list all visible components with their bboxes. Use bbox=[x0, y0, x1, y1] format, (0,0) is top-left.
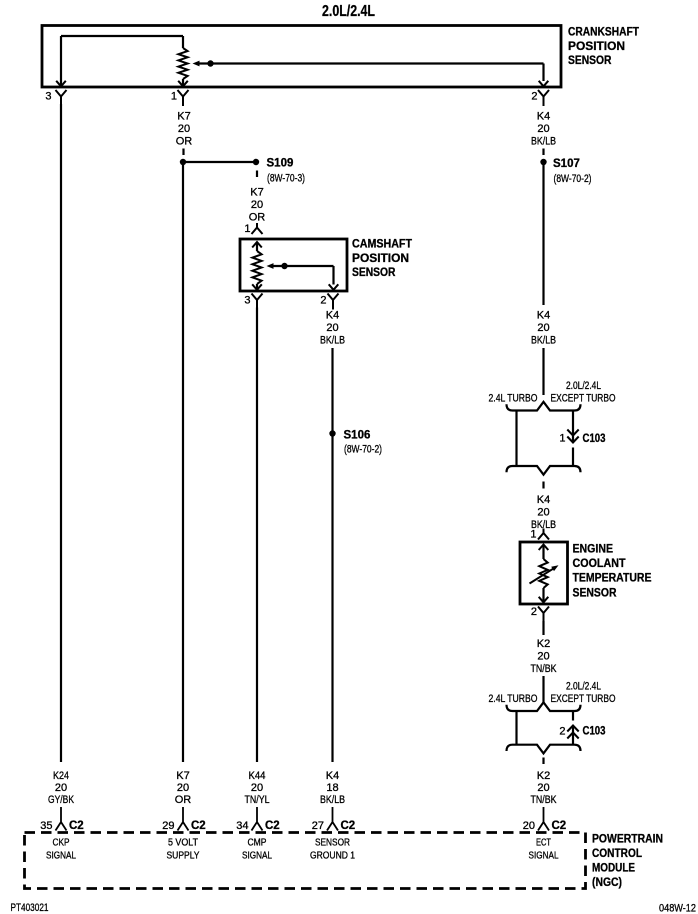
junction dot camshaft pickup bbox=[281, 263, 287, 269]
svg-text:MODULE: MODULE bbox=[592, 861, 635, 875]
pin 2 camshaft connector bbox=[328, 294, 339, 310]
split brace bottom 2 bbox=[507, 745, 581, 754]
svg-text:SIGNAL: SIGNAL bbox=[242, 851, 272, 862]
pin 1 camshaft label bbox=[244, 223, 250, 235]
connector C2 label at pin 35 bbox=[69, 820, 84, 832]
svg-text:BK/LB: BK/LB bbox=[531, 136, 556, 148]
wire S107 down bbox=[542, 162, 544, 305]
svg-text:20: 20 bbox=[326, 322, 338, 334]
wire except turbo upper 2 bbox=[572, 712, 574, 721]
svg-text:20: 20 bbox=[251, 782, 263, 794]
svg-text:CRANKSHAFT: CRANKSHAFT bbox=[568, 25, 640, 39]
pin 20 label bbox=[523, 820, 535, 832]
svg-text:COOLANT: COOLANT bbox=[573, 556, 627, 570]
svg-text:2.4L TURBO: 2.4L TURBO bbox=[489, 693, 538, 705]
label K7 20 OR to camshaft bbox=[249, 187, 266, 224]
svg-text:TN/YL: TN/YL bbox=[245, 794, 270, 806]
svg-text:CMP: CMP bbox=[248, 838, 267, 849]
label K7 20 OR top bbox=[176, 111, 193, 148]
resistor camshaft pickup coil bbox=[252, 251, 261, 284]
label 2.4L TURBO split1 bbox=[489, 393, 538, 405]
svg-text:POWERTRAIN: POWERTRAIN bbox=[592, 832, 663, 846]
svg-text:CONTROL: CONTROL bbox=[592, 846, 642, 860]
wire 5 volt supply column bbox=[182, 162, 184, 762]
svg-text:GROUND 1: GROUND 1 bbox=[310, 851, 355, 862]
wire crank internal left drop bbox=[60, 36, 62, 86]
svg-text:POSITION: POSITION bbox=[352, 251, 409, 265]
svg-text:20: 20 bbox=[523, 820, 535, 832]
crankshaft position sensor box bbox=[42, 26, 561, 88]
svg-text:20: 20 bbox=[537, 507, 549, 519]
wire except turbo lower 2 bbox=[572, 726, 574, 745]
pin 3 camshaft label bbox=[244, 295, 250, 307]
svg-text:2: 2 bbox=[531, 606, 537, 618]
label ECT SIGNAL bbox=[529, 838, 559, 862]
arrow into pin 3 bbox=[56, 81, 66, 87]
wire ECT down bbox=[542, 621, 544, 635]
splice S107 bbox=[540, 158, 580, 170]
label PT403021 bbox=[11, 902, 49, 914]
pin 2 crank connector bbox=[538, 90, 549, 106]
wire resistor to pin 3 camshaft bbox=[256, 284, 258, 289]
svg-text:K4: K4 bbox=[326, 310, 339, 322]
split brace top 2 bbox=[507, 702, 581, 711]
label K4 20 BK/LB crank bbox=[531, 111, 556, 148]
wire branch to S109 bbox=[183, 161, 256, 163]
wire pin1 to resistor bbox=[256, 242, 258, 251]
svg-text:SIGNAL: SIGNAL bbox=[46, 851, 76, 862]
svg-text:SENSOR: SENSOR bbox=[573, 586, 617, 600]
title 2.0L/2.4L bbox=[322, 3, 375, 20]
pin 3 crank connector bbox=[56, 90, 67, 106]
pin 34 label bbox=[236, 820, 248, 832]
arrow into pin 2 ECT bbox=[539, 597, 549, 603]
arrow into pin 3 camshaft bbox=[252, 284, 262, 290]
pin 27 label bbox=[312, 820, 324, 832]
svg-text:BK/LB: BK/LB bbox=[320, 335, 345, 347]
label POWERTRAIN CONTROL MODULE (NGC) bbox=[592, 832, 663, 890]
svg-text:1: 1 bbox=[244, 223, 250, 235]
svg-text:K4: K4 bbox=[537, 310, 550, 322]
wire pin1 ECT to thermistor bbox=[542, 545, 544, 560]
wire crank internal top bbox=[61, 35, 183, 37]
thermistor arrow bbox=[530, 565, 559, 583]
svg-text:K44: K44 bbox=[249, 770, 266, 782]
svg-text:20: 20 bbox=[178, 123, 190, 135]
wire except turbo upper 1 bbox=[572, 411, 574, 443]
arrow into pin 2 bbox=[539, 81, 549, 87]
svg-text:SIGNAL: SIGNAL bbox=[529, 851, 559, 862]
arrow crank pickup bbox=[193, 61, 200, 67]
svg-text:29: 29 bbox=[162, 820, 174, 832]
label 2.0L/2.4L split2 bbox=[566, 681, 601, 693]
svg-text:2: 2 bbox=[559, 726, 565, 738]
wire K44 20 TN/YL bbox=[256, 308, 258, 763]
label K44 20 TN/YL bbox=[245, 770, 270, 806]
wire dash above S107 bbox=[542, 149, 544, 156]
thermistor ECT bbox=[539, 559, 547, 588]
svg-text:ENGINE: ENGINE bbox=[573, 542, 614, 556]
label K24 20 GY/BK bbox=[48, 770, 75, 806]
connector C103 chevrons down bbox=[567, 430, 578, 443]
label CKP SIGNAL bbox=[46, 838, 76, 862]
svg-text:20: 20 bbox=[537, 782, 549, 794]
wire dash above S109 bbox=[182, 149, 184, 156]
svg-text:EXCEPT TURBO: EXCEPT TURBO bbox=[551, 393, 616, 405]
pin 1 C103 label bbox=[559, 433, 565, 445]
label 5 VOLT SUPPLY bbox=[167, 838, 200, 862]
svg-text:POSITION: POSITION bbox=[568, 39, 625, 53]
svg-text:ECT: ECT bbox=[536, 838, 551, 849]
arrow camshaft pickup bbox=[267, 263, 274, 269]
svg-text:2.0L/2.4L: 2.0L/2.4L bbox=[322, 3, 375, 20]
wire thermistor to pin 2 ECT bbox=[542, 588, 544, 602]
svg-text:SENSOR: SENSOR bbox=[352, 265, 396, 279]
splice S109 bbox=[253, 158, 294, 170]
pin 2 ECT connector bbox=[538, 607, 549, 623]
svg-text:1: 1 bbox=[171, 91, 177, 103]
label K4 20 BK/LB mid bbox=[531, 310, 556, 347]
pin 20 PCM connector bbox=[538, 807, 549, 831]
svg-text:18: 18 bbox=[326, 782, 338, 794]
wire except turbo lower 1 bbox=[572, 448, 574, 467]
junction dot at S109 branch bbox=[180, 159, 186, 165]
svg-text:C2: C2 bbox=[341, 820, 356, 832]
svg-text:K7: K7 bbox=[177, 111, 190, 123]
wire dash below split 2 bbox=[542, 758, 544, 765]
wire camshaft ground upper bbox=[331, 348, 333, 762]
wire camshaft pickup shaft bbox=[273, 265, 334, 267]
label C103 first bbox=[583, 433, 606, 445]
svg-text:2.0L/2.4L: 2.0L/2.4L bbox=[566, 681, 601, 693]
svg-text:20: 20 bbox=[177, 782, 189, 794]
svg-text:TN/BK: TN/BK bbox=[531, 663, 558, 675]
svg-text:SENSOR: SENSOR bbox=[568, 53, 612, 67]
wire 2.4L turbo branch 1 bbox=[515, 411, 517, 467]
connector C2 label at pin 29 bbox=[191, 820, 206, 832]
splice S106 bbox=[329, 430, 370, 442]
svg-text:(8W-70-2): (8W-70-2) bbox=[344, 444, 382, 456]
arrow into pin 1 bbox=[178, 81, 188, 87]
svg-text:20: 20 bbox=[537, 322, 549, 334]
label CMP SIGNAL bbox=[242, 838, 272, 862]
svg-text:K7: K7 bbox=[176, 770, 189, 782]
pin 2 ECT label bbox=[531, 606, 537, 618]
svg-text:C103: C103 bbox=[583, 726, 606, 738]
svg-text:CAMSHAFT: CAMSHAFT bbox=[352, 237, 413, 251]
svg-text:S109: S109 bbox=[267, 158, 294, 170]
pin 1 ECT connector bbox=[538, 529, 549, 540]
label (8W-70-2) at S106 bbox=[344, 444, 382, 456]
engine coolant temperature sensor box bbox=[520, 542, 568, 604]
pin 3 camshaft connector bbox=[252, 294, 263, 310]
connector C103 chevrons up bbox=[567, 726, 578, 739]
svg-text:C103: C103 bbox=[583, 433, 606, 445]
junction dot crank pickup bbox=[207, 60, 213, 66]
svg-text:K4: K4 bbox=[537, 494, 550, 506]
svg-text:OR: OR bbox=[175, 794, 192, 806]
svg-text:EXCEPT TURBO: EXCEPT TURBO bbox=[551, 693, 616, 705]
camshaft position sensor box bbox=[240, 239, 347, 291]
svg-text:27: 27 bbox=[312, 820, 324, 832]
svg-text:BK/LB: BK/LB bbox=[531, 335, 556, 347]
label C103 second bbox=[583, 726, 606, 738]
wire 2.4L turbo branch 2 bbox=[515, 711, 517, 745]
label K4 20 BK/LB to ECT bbox=[531, 494, 556, 531]
wire crank pickup drop bbox=[542, 64, 544, 82]
wire crank to resistor bbox=[182, 36, 184, 48]
svg-text:S106: S106 bbox=[344, 430, 371, 442]
svg-text:3: 3 bbox=[244, 295, 250, 307]
wire dash below split 1 bbox=[542, 482, 544, 489]
arrow from pin 1 ECT bbox=[539, 545, 549, 551]
svg-text:SENSOR: SENSOR bbox=[315, 838, 350, 849]
wire dash below S109 bbox=[256, 171, 258, 178]
pin 29 label bbox=[162, 820, 174, 832]
arrow into pin 2 camshaft bbox=[329, 284, 339, 290]
svg-text:20: 20 bbox=[537, 123, 549, 135]
svg-text:TN/BK: TN/BK bbox=[531, 794, 558, 806]
wire to split 1 bbox=[542, 348, 544, 395]
arrow from pin 1 camshaft bbox=[252, 242, 262, 248]
label EXCEPT TURBO split1 bbox=[551, 393, 616, 405]
svg-text:C2: C2 bbox=[265, 820, 280, 832]
pin 2 C103 label bbox=[559, 726, 565, 738]
svg-text:1: 1 bbox=[559, 433, 565, 445]
svg-text:S107: S107 bbox=[553, 158, 580, 170]
pin 3 label bbox=[45, 91, 51, 103]
powertrain control module box bbox=[25, 833, 586, 889]
svg-text:1: 1 bbox=[530, 529, 536, 541]
svg-text:20: 20 bbox=[55, 782, 67, 794]
svg-text:C2: C2 bbox=[191, 820, 206, 832]
svg-text:C2: C2 bbox=[552, 820, 567, 832]
label (8W-70-2) at S107 bbox=[554, 173, 592, 185]
connector C2 label at pin 34 bbox=[265, 820, 280, 832]
wire K24 20 GY/BK bbox=[60, 104, 62, 762]
label 2.4L TURBO split2 bbox=[489, 693, 538, 705]
label K7 20 OR bottom bbox=[175, 770, 192, 806]
svg-text:GY/BK: GY/BK bbox=[48, 794, 75, 806]
svg-text:K4: K4 bbox=[326, 770, 339, 782]
pin 1 crank connector bbox=[178, 90, 189, 106]
pin 35 label bbox=[40, 820, 52, 832]
svg-text:20: 20 bbox=[251, 199, 263, 211]
svg-text:CKP: CKP bbox=[53, 838, 70, 849]
pin 2 camshaft label bbox=[320, 295, 326, 307]
wire resistor to pin 1 bbox=[182, 79, 184, 86]
connector C2 label at pin 20 bbox=[552, 820, 567, 832]
svg-text:2: 2 bbox=[531, 91, 537, 103]
label CAMSHAFT POSITION SENSOR bbox=[352, 237, 413, 280]
svg-text:048W-12: 048W-12 bbox=[659, 903, 696, 914]
label K4 20 BK/LB camshaft bbox=[320, 310, 345, 347]
label EXCEPT TURBO split2 bbox=[551, 693, 616, 705]
svg-text:OR: OR bbox=[249, 212, 266, 224]
wire to split 2 bbox=[542, 676, 544, 703]
label K2 20 TN/BK bottom bbox=[531, 770, 558, 806]
label 048W-12 bbox=[659, 903, 696, 914]
pin 29 PCM connector bbox=[178, 807, 189, 831]
svg-text:5 VOLT: 5 VOLT bbox=[168, 838, 198, 849]
pin 27 PCM connector bbox=[327, 807, 338, 831]
svg-text:TEMPERATURE: TEMPERATURE bbox=[573, 571, 652, 585]
connector C2 label at pin 27 bbox=[341, 820, 356, 832]
wire crank pickup shaft bbox=[199, 62, 544, 64]
svg-text:3: 3 bbox=[45, 91, 51, 103]
svg-text:K7: K7 bbox=[250, 187, 263, 199]
pin 2 label bbox=[531, 91, 537, 103]
svg-text:SUPPLY: SUPPLY bbox=[167, 851, 200, 862]
pin 35 PCM connector bbox=[56, 807, 67, 831]
svg-text:34: 34 bbox=[236, 820, 248, 832]
label 2.0L/2.4L split1 bbox=[566, 380, 601, 392]
svg-text:2.0L/2.4L: 2.0L/2.4L bbox=[566, 380, 601, 392]
svg-text:(8W-70-2): (8W-70-2) bbox=[554, 173, 592, 185]
svg-text:OR: OR bbox=[176, 136, 193, 148]
split brace top 1 bbox=[507, 402, 581, 411]
label K2 20 TN/BK upper bbox=[531, 638, 558, 675]
svg-text:20: 20 bbox=[537, 651, 549, 663]
svg-text:2.4L TURBO: 2.4L TURBO bbox=[489, 393, 538, 405]
svg-text:PT403021: PT403021 bbox=[11, 902, 49, 914]
resistor crank pickup coil bbox=[178, 48, 187, 79]
svg-text:35: 35 bbox=[40, 820, 52, 832]
svg-text:K4: K4 bbox=[537, 111, 550, 123]
svg-text:2: 2 bbox=[320, 295, 326, 307]
label CRANKSHAFT POSITION SENSOR bbox=[568, 25, 640, 68]
svg-text:(NGC): (NGC) bbox=[592, 875, 622, 889]
label ENGINE COOLANT TEMPERATURE SENSOR bbox=[573, 542, 652, 600]
svg-text:C2: C2 bbox=[69, 820, 84, 832]
label K4 18 BK/LB bbox=[320, 770, 345, 806]
wire camshaft pickup drop bbox=[332, 266, 334, 285]
svg-text:K2: K2 bbox=[537, 770, 550, 782]
pin 1 camshaft connector bbox=[252, 223, 263, 234]
svg-text:K2: K2 bbox=[537, 638, 550, 650]
label SENSOR GROUND 1 bbox=[310, 838, 355, 862]
label (8W-70-3) bbox=[267, 173, 305, 185]
pin 1 label bbox=[171, 91, 177, 103]
svg-text:(8W-70-3): (8W-70-3) bbox=[267, 173, 305, 185]
split brace bottom 1 bbox=[507, 466, 581, 475]
svg-text:BK/LB: BK/LB bbox=[320, 794, 345, 806]
pin 1 ECT label bbox=[530, 529, 536, 541]
pin 34 PCM connector bbox=[252, 807, 263, 831]
svg-text:K24: K24 bbox=[53, 770, 69, 782]
